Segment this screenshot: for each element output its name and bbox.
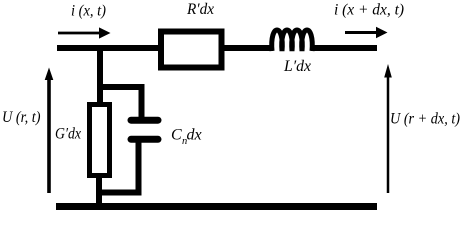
voltage arrow right <box>384 64 392 193</box>
svg-text:G′dx: G′dx <box>55 126 81 143</box>
resistor R1 box <box>161 32 222 68</box>
voltage arrow left <box>45 68 54 194</box>
svg-text:dx: dx <box>187 127 202 144</box>
svg-text:L′dx: L′dx <box>283 58 311 75</box>
svg-text:R′dx: R′dx <box>186 1 214 18</box>
resistor G box <box>90 105 110 176</box>
wire branch horizontal to capacitor <box>97 84 145 90</box>
wire top segment 1 <box>57 45 162 51</box>
wire top segment 2 <box>224 45 273 51</box>
wire capacitor top stub <box>139 85 145 120</box>
capacitor C bottom plate <box>131 136 158 143</box>
svg-text:U (r + dx, t): U (r + dx, t) <box>390 110 460 127</box>
inductor L1 <box>272 30 313 51</box>
svg-text:U (r, t): U (r, t) <box>2 109 41 126</box>
svg-text:C: C <box>171 127 182 144</box>
capacitor C top plate <box>131 117 158 124</box>
wire bottom connector <box>96 190 142 196</box>
wire top segment 3 <box>311 45 377 51</box>
current arrow left <box>58 27 111 38</box>
svg-text:i (x + dx, t): i (x + dx, t) <box>334 1 404 18</box>
wire bottom <box>56 203 377 210</box>
wire G stub bottom <box>96 176 102 207</box>
wire capacitor bottom stub <box>136 140 142 192</box>
svg-text:i (x, t): i (x, t) <box>71 3 106 20</box>
wire shunt vertical <box>97 48 103 104</box>
current arrow right <box>345 27 388 38</box>
